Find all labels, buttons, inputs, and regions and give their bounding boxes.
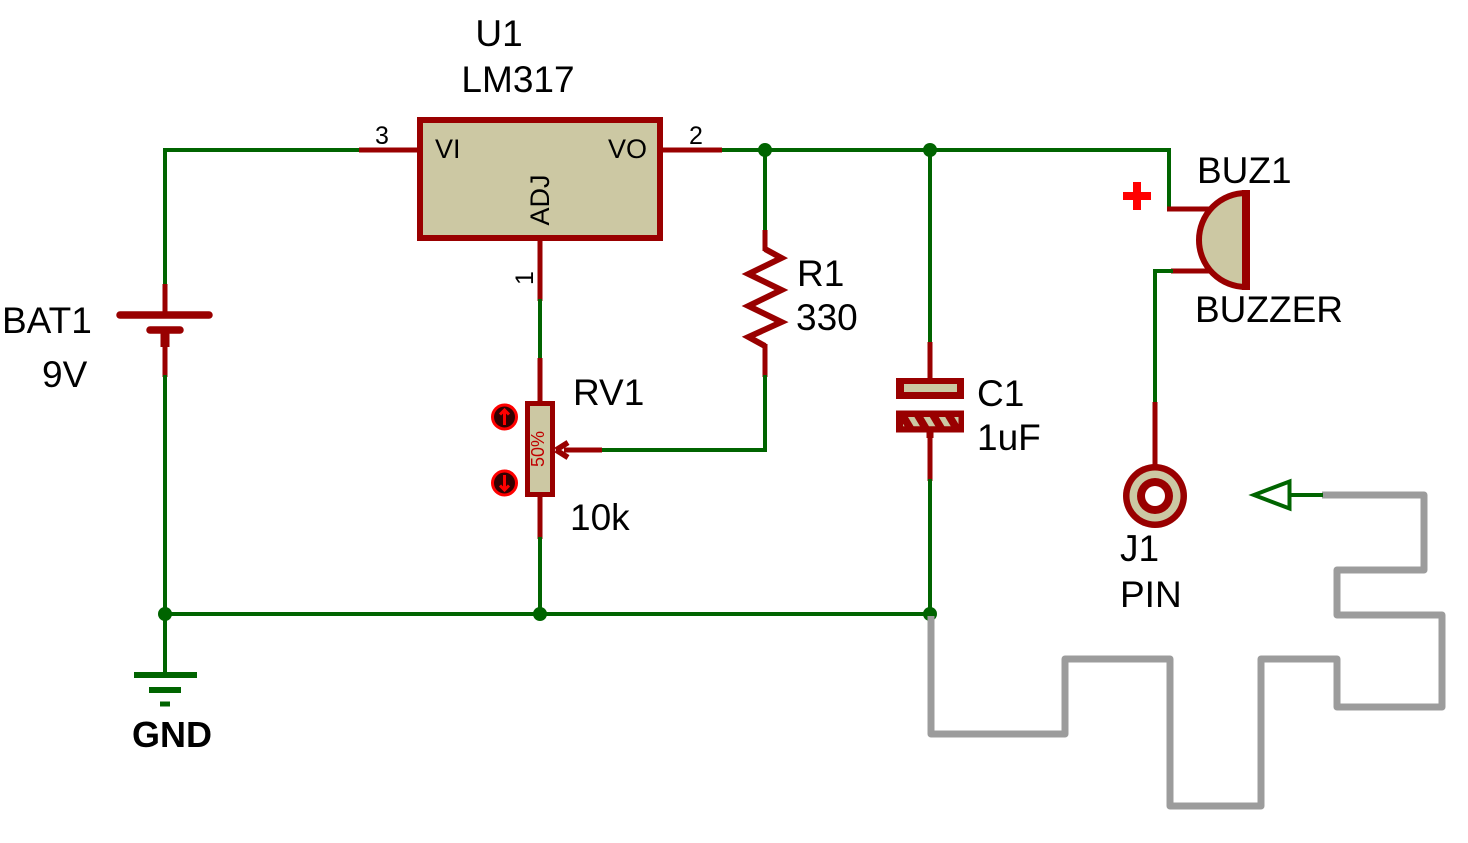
pin RV1 wiper with arrow [564, 448, 602, 453]
pin 1 of U1 (ADJ) [538, 238, 543, 301]
svg-text:RV1: RV1 [573, 372, 644, 413]
svg-text:3: 3 [375, 122, 389, 150]
potentiometer RV1 body [528, 404, 553, 495]
node junction at R1 top [758, 143, 772, 157]
pin 2 of U1 [663, 148, 722, 153]
wire RV1 bottom to ground rail [538, 537, 542, 614]
pin C1 bottom [927, 432, 934, 438]
RV1 down button [493, 471, 517, 495]
svg-text:1uF: 1uF [977, 417, 1041, 458]
wire battery bottom to ground rail [163, 375, 167, 614]
pin R1 top [763, 230, 768, 251]
svg-text:BUZ1: BUZ1 [1197, 150, 1292, 191]
RV1 up button [493, 405, 517, 429]
wire C1 top [928, 150, 932, 344]
capacitor C1 top plate [896, 378, 964, 399]
svg-text:PIN: PIN [1120, 574, 1182, 615]
wire ADJ to RV1 [538, 299, 542, 360]
arrow head [1254, 482, 1290, 509]
node junction RV1 bottom [533, 607, 547, 621]
plus sign [1123, 182, 1151, 210]
svg-text:C1: C1 [977, 373, 1024, 414]
wire gray route from ground junction [931, 495, 1442, 806]
svg-text:50%: 50% [528, 431, 548, 467]
pin battery top [163, 284, 168, 313]
svg-text:GND: GND [132, 714, 212, 755]
svg-text:BUZZER: BUZZER [1195, 289, 1343, 330]
pin 3 of U1 [359, 148, 418, 153]
wire buzzer - to J1 [1155, 271, 1173, 404]
svg-text:ADJ: ADJ [525, 174, 555, 225]
svg-text:VO: VO [608, 134, 647, 164]
svg-text:U1: U1 [475, 13, 522, 54]
pin buzzer - [1171, 269, 1210, 274]
svg-text:330: 330 [796, 297, 858, 338]
buzzer BUZ1 body [1199, 193, 1246, 287]
svg-text:10k: 10k [570, 497, 630, 538]
wire R1 bottom to RV1 wiper [600, 375, 765, 450]
wire ground rail [165, 612, 930, 616]
battery bottom plate [150, 326, 180, 334]
pin J1 top [1153, 402, 1158, 465]
ground symbol [134, 614, 197, 704]
battery top plate [120, 311, 209, 319]
pin RV1 bottom [538, 494, 543, 539]
node junction at C1 top [923, 143, 937, 157]
wire green stub with arrow [1290, 493, 1323, 497]
wire C1 bottom to ground rail [928, 479, 932, 614]
node junction C1 bottom / gray path [923, 607, 937, 621]
wire top rail from battery to U1 [165, 150, 361, 286]
svg-text:1: 1 [511, 271, 539, 285]
svg-text:R1: R1 [797, 253, 844, 294]
pin buzzer + [1167, 207, 1210, 212]
pin RV1 top [538, 358, 543, 404]
wire VO rail to buzzer corner [722, 150, 1169, 209]
connector J1 [1123, 464, 1187, 528]
svg-text:J1: J1 [1120, 528, 1159, 569]
resistor R1 zigzag [749, 249, 782, 346]
capacitor C1 bottom plate (hatched) [894, 411, 965, 433]
op-amp U1 body LM317 [420, 120, 660, 238]
pin battery bottom [161, 333, 170, 347]
pin R1 bottom [763, 344, 768, 377]
svg-text:9V: 9V [42, 354, 88, 395]
svg-text:BAT1: BAT1 [2, 300, 92, 341]
wire junction to R1 [763, 150, 767, 232]
node junction battery/ground [158, 607, 172, 621]
svg-text:VI: VI [435, 134, 461, 164]
svg-text:LM317: LM317 [461, 59, 574, 100]
pin C1 top [928, 342, 933, 379]
svg-text:2: 2 [689, 122, 703, 150]
